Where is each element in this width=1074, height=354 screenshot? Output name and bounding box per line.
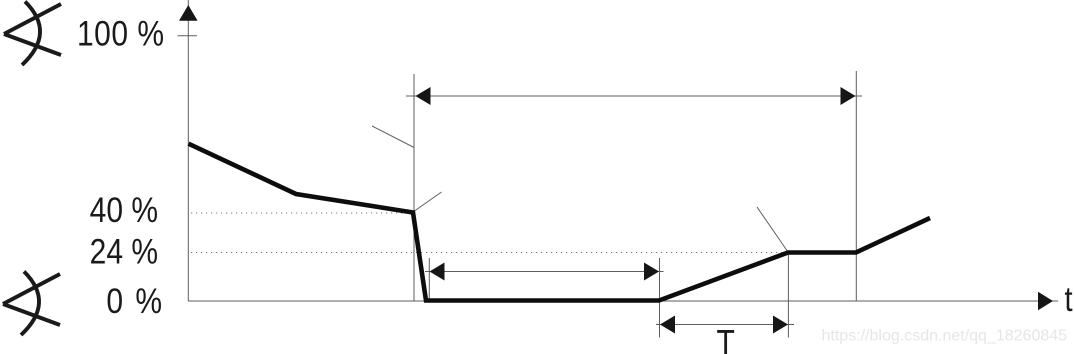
svg-text:24 %: 24 %: [90, 231, 158, 271]
svg-text:https://blog.csdn.net/qq_18260: https://blog.csdn.net/qq_18260845: [822, 328, 1068, 345]
svg-text:40 %: 40 %: [90, 189, 158, 229]
brightness curve: [189, 144, 931, 301]
svg-text:T: T: [717, 324, 735, 354]
dimension line 0% hold (middle): [425, 271, 664, 273]
vertical reference line t5 (end, big arrow right): [855, 71, 857, 301]
arrowhead right (middle dimension): [644, 263, 659, 281]
x-axis arrowhead: [1038, 292, 1053, 310]
leader line to dim start: [372, 126, 414, 148]
arrowhead right (top dimension): [841, 87, 856, 105]
leader line to 24% breakpoint: [757, 207, 788, 252]
dotted level line 40%: [191, 212, 406, 214]
100% tick: [178, 35, 198, 37]
brightness icon top-left: [4, 2, 61, 66]
arrowhead left (top dimension): [416, 87, 431, 105]
arrowhead left (middle dimension): [430, 263, 445, 281]
svg-text:100 %: 100 %: [77, 13, 165, 53]
svg-text:t: t: [1065, 279, 1073, 318]
svg-text:0 %: 0 %: [106, 281, 164, 321]
vertical reference line t1 (dim start): [413, 74, 415, 301]
arrowhead left (T dimension): [660, 316, 675, 334]
vertical reference line t3 (ramp start / T left): [659, 258, 661, 338]
dimension line T (bottom): [656, 324, 794, 326]
arrowhead right (T dimension): [773, 316, 788, 334]
dimension line total duration (top): [406, 95, 862, 97]
dotted level line 24%: [191, 252, 786, 254]
vertical reference line t2 (0% start, middle arrow left): [428, 258, 430, 302]
x-axis: [188, 300, 1058, 302]
leader line to 40% breakpoint: [413, 192, 442, 212]
y-axis: [187, 0, 189, 301]
brightness icon bottom-left: [3, 272, 60, 336]
vertical reference line t4 (24% reached / T right): [787, 252, 789, 338]
y-axis arrowhead: [179, 5, 198, 21]
